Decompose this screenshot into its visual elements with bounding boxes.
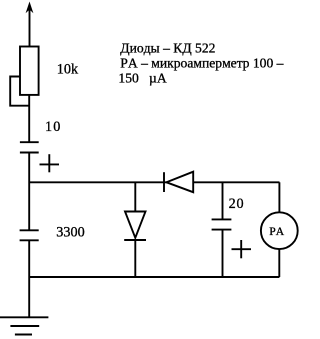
svg-text:20: 20 <box>229 196 245 212</box>
svg-text:Диоды – КД 522: Диоды – КД 522 <box>120 40 215 55</box>
top rail wire right of D2 <box>193 181 279 183</box>
wire C1 to C2 <box>28 153 30 231</box>
bottom rail wire <box>29 276 279 278</box>
capacitor C1 10 <box>20 142 39 152</box>
capacitor C2 3300 <box>20 230 39 240</box>
wire D1 to bottom rail <box>134 240 136 277</box>
antenna arrow <box>26 2 34 47</box>
diode D1 <box>124 212 146 241</box>
svg-text:10: 10 <box>45 119 62 135</box>
note text <box>118 40 283 85</box>
svg-text:10k: 10k <box>57 62 79 78</box>
wire resistor to C1 <box>28 95 30 142</box>
resistor R1 10k <box>20 47 39 95</box>
wire C2 to ground <box>28 240 30 317</box>
diode D2 <box>164 172 193 193</box>
svg-text:150: 150 <box>118 71 139 86</box>
svg-text:µА: µА <box>149 71 167 86</box>
svg-text:3300: 3300 <box>56 224 84 240</box>
wiper tap wire <box>10 77 29 106</box>
wire meter to bottom rail <box>278 249 280 277</box>
svg-text:РА – микроамперметр 100 –: РА – микроамперметр 100 – <box>120 56 283 71</box>
top rail wire left of D2 <box>29 181 167 183</box>
ground <box>0 317 48 334</box>
plus polarity mark of C1 <box>40 154 60 172</box>
plus polarity mark of C3 <box>232 240 252 258</box>
wire C3 to bottom rail <box>222 230 224 277</box>
meter PA <box>261 212 298 249</box>
wire top rail to meter <box>278 182 280 212</box>
capacitor C3 20 <box>212 219 232 229</box>
wire top rail to D1 <box>134 182 136 211</box>
svg-text:РА: РА <box>269 225 286 238</box>
wire top rail to C3 <box>222 182 224 219</box>
